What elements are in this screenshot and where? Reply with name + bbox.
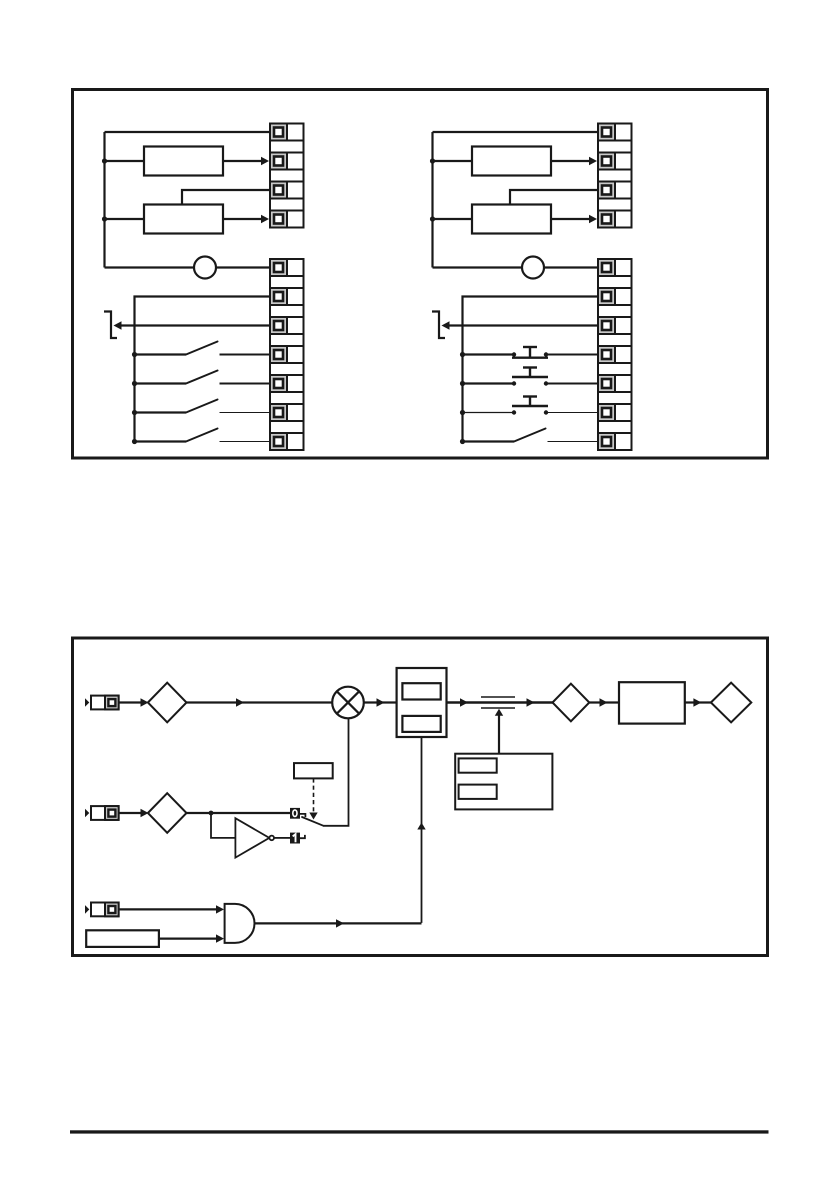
parameter block P1 — [455, 754, 552, 810]
push-button right SB3 — [460, 397, 599, 416]
node left junction coil-b — [102, 216, 107, 221]
switch left S2 — [132, 371, 271, 387]
register block R1 — [397, 668, 447, 737]
node right junction coil-b — [430, 216, 435, 221]
node X2 branch — [209, 811, 214, 816]
border frame of logic diagram — [73, 638, 768, 956]
wire right coil-a output — [551, 160, 591, 162]
terminal strip left upper — [270, 124, 304, 228]
push-button right SB2 — [460, 368, 599, 387]
wire X2 to D2 — [119, 812, 141, 814]
wire right lamp right — [544, 266, 599, 268]
wire right coil-a input — [433, 160, 473, 162]
switch right S4 — [460, 429, 599, 445]
relay coil leftb — [144, 205, 223, 234]
wire right common return — [463, 297, 600, 442]
dashed control link — [313, 778, 315, 811]
wire right coil-b input — [433, 218, 473, 220]
relay coil righta — [472, 147, 551, 176]
switch left S4 — [132, 429, 271, 445]
terminal strip left lower — [270, 259, 304, 450]
wire B1 to D4 — [685, 701, 711, 703]
decision diamond D3 — [553, 684, 590, 722]
switch left S3 — [132, 400, 271, 416]
selector contact 0 stub — [300, 814, 306, 817]
wire register to D3 — [447, 701, 553, 703]
wire left coil-a output — [223, 160, 263, 162]
wire inverter to selector position 1 — [274, 837, 290, 839]
AND gate G1 — [225, 904, 255, 943]
wire D3 to block B1 — [589, 701, 619, 703]
lamp right — [522, 257, 544, 279]
selector contact 1 stub — [300, 835, 305, 838]
wire left coil-b tap — [182, 190, 271, 205]
decision diamond D4 — [711, 683, 751, 723]
connector bracket left — [104, 312, 117, 339]
wire left coil-b output — [223, 218, 263, 220]
node right junction coil-a — [430, 158, 435, 163]
decision diamond D2 — [148, 793, 187, 833]
wire multiplier to register — [364, 701, 397, 703]
wire OP1 to AND gate — [159, 937, 217, 939]
setpoint box SP1 — [294, 763, 333, 778]
relay coil lefta — [144, 147, 223, 176]
process block B1 — [619, 682, 685, 723]
inverter U1 — [235, 818, 274, 857]
selector position 0 label — [290, 808, 300, 819]
terminal strip right lower — [598, 259, 632, 450]
wire AND output — [255, 922, 422, 924]
wire left output arrow — [121, 324, 271, 326]
selector blade — [302, 817, 324, 826]
wire left common return — [135, 297, 272, 442]
wire right supply bus — [431, 132, 433, 268]
input symbol X1 — [85, 696, 119, 710]
wire X1 to D1 — [119, 701, 141, 703]
wire P1 to transition bars — [498, 715, 500, 754]
wire right coil-b tap — [510, 190, 599, 205]
connector bracket right — [432, 312, 445, 339]
wire left coil-b input — [105, 218, 145, 220]
input symbol X2 — [85, 806, 119, 820]
lamp left — [194, 257, 216, 279]
node left junction coil-a — [102, 158, 107, 163]
input symbol X3 — [85, 903, 119, 917]
wire right supply top — [433, 131, 600, 133]
wire right coil-b output — [551, 218, 591, 220]
transition bars T1 — [481, 696, 515, 698]
multiplier M1 — [332, 687, 364, 719]
wire branch to inverter — [211, 813, 235, 838]
wire left lamp left — [105, 266, 195, 268]
wire right output arrow — [449, 324, 599, 326]
push-button right SB1 — [460, 347, 599, 358]
border frame of wiring diagram — [73, 90, 768, 459]
wire D2 to selector position 0 — [186, 812, 290, 814]
footer rule — [70, 1130, 769, 1133]
wire D1 to multiplier — [186, 701, 332, 703]
operand box OP1 — [86, 930, 159, 947]
wire AND to register — [417, 737, 425, 923]
wire left supply bus — [103, 132, 105, 268]
wire left supply top — [105, 131, 272, 133]
wire right lamp left — [433, 266, 523, 268]
wire left coil-a input — [105, 160, 145, 162]
wire left lamp right — [216, 266, 271, 268]
switch left S1 — [132, 342, 271, 358]
wire selector to multiplier — [324, 718, 349, 826]
terminal strip right upper — [598, 124, 632, 228]
relay coil rightb — [472, 205, 551, 234]
selector position 1 label — [290, 833, 300, 844]
wire X3 to AND gate — [119, 908, 217, 910]
decision diamond D1 — [148, 683, 187, 723]
